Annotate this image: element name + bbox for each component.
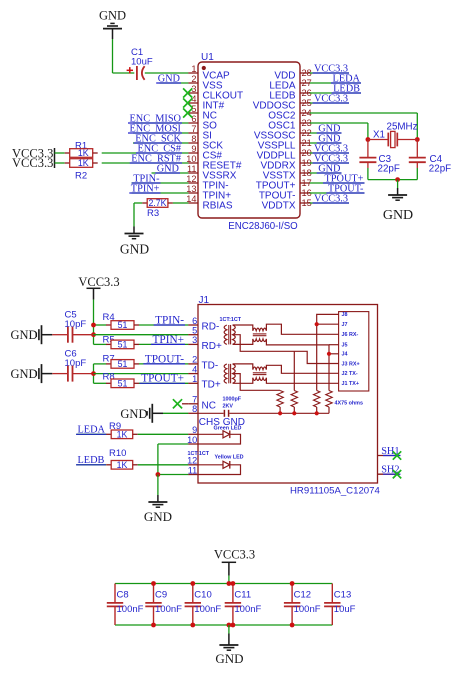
choke L1 (RX) [253,328,267,341]
node decoupling top rail [231,581,236,586]
transformer T1 (RX) 1CT:1CT [220,317,242,344]
J1 pin 4 [188,364,198,374]
svg-text:C13: C13 [334,589,351,600]
svg-text:VCC3.3: VCC3.3 [214,548,255,562]
U1 pin 2 VSS [188,74,223,92]
no-connect X J1 pin 7 [173,399,188,408]
wire TX secondary bottom to choke and J1 TX+ [233,378,339,384]
J1 pin 6 [188,316,198,326]
capacitor C3 22pF [359,140,399,180]
J1 pin name TD- [202,360,219,371]
svg-text:1K: 1K [117,430,128,440]
svg-text:GND: GND [383,208,413,223]
svg-text:9: 9 [191,144,196,154]
power flag VCC3.3 (pin 10 row) [12,156,55,170]
svg-text:3: 3 [192,335,197,345]
wire node to J1 pin 4 [94,373,189,375]
IC U1 reference designator [201,52,214,63]
J1 pin 10 [187,435,198,445]
node R4 tap [91,323,96,328]
svg-text:J4: J4 [342,352,348,358]
U1 pin 17 TPOUT+ [256,178,312,191]
svg-text:Yellow LED: Yellow LED [215,454,244,460]
wire+net label TPOUT- pin 16 [310,183,365,194]
node decoupling top rail [227,581,232,586]
svg-text:14: 14 [186,194,196,204]
wire node to J1 pin 5 [94,334,189,336]
J1 pin 3 [188,335,198,345]
wire+net label VCC3.3 pin 19 [310,153,349,164]
svg-text:1: 1 [192,374,197,384]
svg-text:7: 7 [192,395,197,405]
wire TX choke to J2 TX- [266,365,338,373]
svg-text:7: 7 [191,124,196,134]
node rail R13 [315,411,319,415]
resistor R9 1K [106,421,138,440]
resistor R12 75 (internal) [291,351,297,407]
no-connect X pin 4 [183,98,192,107]
wire RX center tap to R12/J3 RX+ [233,335,339,364]
wire R7 to J1 pin 2 + net label TPOUT- [139,353,188,365]
svg-text:12: 12 [186,174,196,184]
resistor R11 75 (internal) [277,391,283,408]
wire+net label GND pin 18 [310,163,342,174]
capacitor C12 100nF [284,584,321,626]
svg-text:TD-: TD- [202,360,219,371]
wire R9 to J1 pin 9 [138,433,189,435]
U1 pin 6 SO [188,114,217,132]
U1 pin 24 OSC2 [268,108,311,121]
J1 pin 11 [188,465,198,475]
svg-text:C10: C10 [194,589,211,600]
net label TPIN- pin 12 [132,173,189,184]
svg-text:100nF: 100nF [117,604,144,615]
wire R2 to pin 10 + net label ENC_RST# [102,153,189,164]
power flag GND (decoupling) [215,625,243,666]
wire RX choke to J6 RX- [266,324,338,334]
svg-text:2: 2 [191,74,196,84]
wire TX center tap to R11 [233,374,281,391]
U1 pin 16 TPOUT- [259,188,312,201]
svg-text:100nF: 100nF [194,604,221,615]
no-connect X pin 3 [183,88,192,97]
node decoupling bottom rail [151,623,156,628]
wire R10 to J1 pin 12 [138,464,189,466]
connector J1 HR911105A body [198,305,378,484]
wire crystal caps bottom rail [368,179,417,181]
resistor R10 1K [106,448,138,470]
node LED ground [156,472,161,477]
label 4X75 ohms [335,401,363,407]
power flag GND (J1 pin 8) [120,404,163,423]
power flag GND (top left) [99,9,126,40]
wire+net label ENC_MISO [128,113,188,124]
wire+net label LEDB pin 26 [310,83,361,94]
U1 pin 22 VSSOSC [254,128,312,141]
wire decoupling top rail [115,583,332,585]
wire decoupling bottom rail [115,624,332,626]
node decoupling bottom rail [227,623,232,628]
wire+net label VCC3.3 pin 28 [310,63,349,74]
svg-text:100nF: 100nF [234,604,261,615]
node decoupling bottom rail [190,623,195,628]
wire GND to J1 pin 8 [163,412,188,414]
capacitor C4 22pF [409,140,451,180]
svg-text:J8: J8 [342,312,348,318]
svg-text:22pF: 22pF [429,164,451,175]
node J7 [315,322,319,326]
svg-text:TD+: TD+ [202,380,221,391]
net label LEDA [76,425,107,436]
wire RX choke to J5/J4 [266,339,338,391]
node C5 / pin 5 [91,332,96,337]
svg-text:R3: R3 [147,208,159,219]
U1 pin 20 VDDPLL [257,148,312,161]
svg-text:12: 12 [187,456,197,466]
svg-text:10uF: 10uF [334,604,356,615]
crystal X1 25MHz [368,122,418,148]
svg-text:RBIAS: RBIAS [203,201,233,212]
svg-text:R2: R2 [75,171,87,182]
svg-text:6: 6 [191,114,196,124]
U1 pin 14 RBIAS [186,194,233,212]
svg-text:1CT:1CT: 1CT:1CT [220,317,242,323]
node J4 [327,352,331,356]
J1 pin 5 [188,326,198,336]
svg-text:11: 11 [188,465,198,475]
svg-text:6: 6 [192,316,197,326]
node crystal ground [395,177,400,182]
wire GND to C1 and pin 1 [113,39,189,73]
svg-text:100nF: 100nF [294,604,321,615]
svg-text:13: 13 [186,184,196,194]
U1 pin 25 VDDOSC [253,98,312,111]
J1 pin name CHS GND [199,417,245,428]
svg-text:C12: C12 [294,589,311,600]
wire VCC3.3 to R1 [55,152,65,154]
wire+net label ENC_SCK [133,133,188,144]
node crystal right [415,137,420,142]
node decoupling bottom rail [231,623,236,628]
capacitor C8 100nF [107,584,144,626]
wire+net label TPOUT+ pin 17 [310,173,365,184]
capacitor C11 100nF [225,584,262,626]
J1 pin 8 [188,404,198,414]
svg-text:C8: C8 [117,589,129,600]
wire+net label VCC3.3 pin 20 [310,143,349,154]
wire J8 to R13 [317,314,339,390]
J1 pin SH2 [378,465,402,479]
power flag GND (LED) [144,475,172,525]
J1 pin name RD- [202,321,220,332]
svg-text:R10: R10 [109,448,126,459]
J1 pin 12 [187,456,198,466]
U1 pin 4 INT# [188,94,224,112]
capacitor 1000pF 2KV (internal) [198,397,242,417]
J1 pin 7 [188,395,198,405]
svg-text:J6 RX-: J6 RX- [342,332,359,338]
svg-text:4X75 ohms: 4X75 ohms [335,401,363,407]
svg-text:RD-: RD- [202,321,220,332]
svg-text:100nF: 100nF [155,604,182,615]
wire R1 to pin 9 + net label ENC_CS# [102,143,189,154]
wire C6 node vertical R7/R8 [94,364,107,383]
wire RX secondary top to choke [233,325,253,331]
power flag VCC3.3 (decoupling) [214,548,255,576]
U1 pin 19 VDDRX [260,158,311,171]
svg-text:J5: J5 [342,343,348,349]
wire TX secondary top to choke [233,364,253,370]
node rail R11 [278,411,282,415]
svg-text:5: 5 [192,326,197,336]
power flag VCC3.3 (J1 bias) [78,275,119,300]
wire pin 23 OSC1 to crystal left node [310,123,368,140]
U1 pin 13 TPIN+ [186,184,231,202]
svg-text:8: 8 [191,134,196,144]
J1 pin SH1 [378,446,402,460]
power flag GND (below R3) [120,234,149,257]
U1 pin 5 NC [188,104,217,122]
IC U1 ENC28J60-I/SO body [198,62,300,218]
svg-text:GND: GND [99,9,126,23]
capacitor C1 10uF (polarized) [127,47,153,80]
resistor R8 51 [103,372,140,389]
svg-text:VCC3.3: VCC3.3 [12,156,53,170]
svg-text:GND: GND [144,509,172,524]
svg-text:10: 10 [186,154,196,164]
power flag VCC3.3 (pin 9 row) [12,146,55,160]
svg-text:VDDTX: VDDTX [262,201,296,212]
svg-text:1CT:1CT: 1CT:1CT [188,451,210,457]
node crystal left [366,137,371,142]
power flag GND (crystal) [383,180,413,223]
svg-text:Green LED: Green LED [214,426,242,432]
svg-text:GND: GND [120,242,149,257]
svg-text:2KV: 2KV [223,404,234,410]
svg-text:2: 2 [192,355,197,365]
U1 pin 7 SI [188,124,212,142]
svg-text:J1 TX+: J1 TX+ [342,381,360,387]
J1 pin name TD+ [202,380,221,391]
node decoupling top rail [290,581,295,586]
net label GND pin 2 [156,73,188,84]
wire R8 to J1 pin 1 + net label TPOUT+ [139,373,188,385]
resistor R1 1K [65,141,98,159]
node decoupling top rail [190,581,195,586]
svg-text:C11: C11 [234,589,251,600]
svg-text:2.7K: 2.7K [148,198,166,208]
resistor R4 51 [103,312,140,330]
U1 pin 26 LEDB [269,88,311,101]
wire+net label GND pin 22 [310,123,342,134]
svg-text:J1: J1 [199,295,210,306]
svg-text:J3 RX+: J3 RX+ [342,361,360,367]
J1 pin 9 [188,425,198,435]
net label LEDB [76,455,106,466]
wire J1 pin 11 to LED ground [158,474,189,476]
wire termination rail [229,407,329,413]
svg-text:1000pF: 1000pF [223,397,242,403]
resistor R14 75 (internal) [326,391,332,408]
svg-text:51: 51 [118,379,128,389]
svg-text:ENC28J60-I/SO: ENC28J60-I/SO [228,221,298,232]
J1 internal pin header [339,312,369,391]
U1 pin 15 VDDTX [262,198,312,211]
wire pin 24 OSC2 to crystal right node [310,113,418,140]
power flag GND (C5) [11,325,53,344]
resistor R13 75 (internal) [314,391,320,408]
U1 pin 27 LEDA [269,78,311,91]
svg-text:4: 4 [192,364,197,374]
wire+net label VCC3.3 pin 15 [310,193,349,204]
svg-text:GND: GND [120,407,147,421]
wire+net label LEDA pin 27 [310,73,361,84]
svg-text:51: 51 [118,340,128,350]
svg-text:8: 8 [192,404,197,414]
U1 pin 9 CS# [188,144,222,162]
svg-text:VCC3.3: VCC3.3 [78,275,119,289]
transformer T2 (TX) 1CT:1CT [224,364,235,383]
node decoupling top rail [151,581,156,586]
U1 pin 12 TPIN- [186,174,228,192]
wire J1 pin 10 to LED ground [158,444,189,475]
J1 pin name RD+ [202,341,222,352]
svg-text:U1: U1 [201,52,214,63]
node rail R12 [292,411,296,415]
wire+net label GND pin 21 [310,133,342,144]
J1 pin 2 [188,355,198,365]
wire RX secondary bottom to choke [233,339,253,345]
svg-text:1K: 1K [78,158,89,168]
capacitor C6 10pF [52,349,93,382]
node decoupling bottom rail [290,623,295,628]
connector J1 reference designator [199,295,210,306]
J1 pin name NC [202,401,216,412]
power flag GND (C6) [11,364,53,383]
U1 pin 1 VCAP [188,64,230,82]
resistor R7 51 [103,354,140,370]
U1 pin 3 CLKOUT [188,84,243,102]
U1 pin 18 VSSTX [263,168,312,181]
U1 pin 8 SCK [188,134,223,152]
svg-text:1K: 1K [78,148,89,158]
U1 pin 10 RESET# [186,154,242,172]
wire+net label VCC3.3 pin 25 [310,93,349,104]
J1 pin 1 [188,374,198,384]
wire VCC3.3 to top rail [228,576,230,584]
LED yellow (internal) [198,454,244,474]
U1 pin 28 VDD [274,68,311,81]
svg-text:J2 TX-: J2 TX- [342,371,358,377]
wire R3 to ground [134,203,142,234]
resistor R2 1K [65,158,98,181]
capacitor C5 10pF [52,310,93,343]
no-connect X pin 5 [183,108,192,117]
svg-text:51: 51 [118,359,128,369]
capacitor C13 10uF [324,584,356,626]
svg-text:10: 10 [187,435,197,445]
svg-text:C9: C9 [155,589,167,600]
svg-text:51: 51 [118,320,128,330]
label 1CT:1CT (LED) [188,451,210,457]
IC U1 part number label [228,221,298,232]
svg-text:GND: GND [11,367,38,381]
svg-text:11: 11 [187,164,197,174]
svg-text:HR911105A_C12074: HR911105A_C12074 [290,486,380,497]
wire VCC3.3 to R2 [55,162,65,164]
LED green (internal) [198,426,241,445]
wire R5 to J1 pin 3 + net label TPIN+ [139,334,188,346]
choke L2 (TX) [253,367,267,380]
wire+net label ENC_MOSI [128,123,188,134]
svg-text:NC: NC [202,401,216,412]
net label GND pin 11 [152,163,189,174]
wire VCC3.3 down to R4/R5 and C5 node [94,300,107,345]
svg-text:J7: J7 [342,322,348,328]
capacitor C10 100nF [185,584,222,626]
wire R4 to J1 pin 6 + net label TPIN- [139,314,188,326]
wire R3 to pin 14 [173,202,189,204]
node C6 / pin 4 [91,371,96,376]
svg-text:1: 1 [191,64,196,74]
svg-text:9: 9 [192,425,197,435]
U1 pin 21 VSSPLL [258,138,312,151]
svg-text:RD+: RD+ [202,341,222,352]
resistor R3 2.7K [142,198,173,219]
svg-text:22pF: 22pF [378,164,400,175]
svg-text:1K: 1K [117,460,128,470]
svg-text:10uF: 10uF [131,57,153,68]
U1 pin 23 OSC1 [268,118,311,131]
net label TPIN+ pin 13 [129,183,188,194]
connector J1 part number [290,486,380,497]
svg-text:GND: GND [11,328,38,342]
capacitor C9 100nF [145,584,182,626]
resistor R5 51 [103,335,140,350]
U1 pin 11 VSSRX [187,164,237,182]
svg-text:GND: GND [215,651,243,666]
